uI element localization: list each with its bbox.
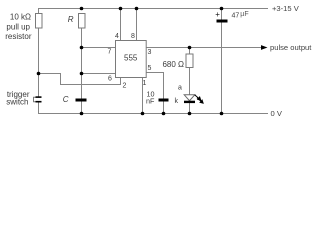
svg-text:nF: nF [146,97,155,106]
svg-text:1: 1 [143,80,147,87]
node LED bottom [188,112,192,116]
node 10nF bottom [162,112,166,116]
wire top rail +V [39,9,269,14]
svg-text:6: 6 [108,76,112,83]
svg-text:0 V: 0 V [271,109,283,118]
trigger switch symbol [34,96,42,102]
wire pin 5 to 10nF capacitor [146,73,163,114]
pulse output arrowhead [261,45,268,50]
wire pin 8 to +V [136,9,138,41]
svg-text:7: 7 [108,49,112,56]
svg-text:2: 2 [123,83,127,90]
svg-text:a: a [178,85,182,92]
node 680 ohm junction [188,46,192,50]
svg-text:680 Ω: 680 Ω [162,60,184,69]
node pin4 top [119,7,123,11]
node pin1 bottom [141,112,145,116]
svg-text:resistor: resistor [5,32,32,41]
node junction dots [37,7,224,116]
svg-text:+3-15 V: +3-15 V [272,4,300,13]
wire trigger to pin 2 [39,74,121,85]
resistor R [79,14,86,29]
node trigger junction [37,72,41,76]
capacitor C plate [76,99,87,102]
wire R to C vertical [81,28,83,99]
svg-text:pull up: pull up [6,23,30,32]
svg-text:5: 5 [148,65,152,72]
wire LED cathode to 0V [189,103,191,114]
svg-text:C: C [63,95,69,104]
LED D1 [184,95,203,104]
svg-text:8: 8 [131,33,135,40]
wire pin 4 to +V [120,9,122,41]
wire node to pin 6 [82,73,116,75]
svg-text:+: + [215,10,220,19]
wire 680 ohm branch [189,48,191,55]
LED emission arrows [195,95,204,104]
resistor 10k pull up [36,14,43,29]
node 47uF bottom [220,112,224,116]
capacitor 10 nF plate [159,99,169,102]
node pin8 top [135,7,139,11]
wire pin 3 output [146,47,261,49]
svg-text:3: 3 [148,49,152,56]
svg-text:µF: µF [240,11,248,18]
node pin6 junction [80,72,84,76]
node C bottom [80,112,84,116]
wire node to pin 7 [82,47,116,49]
svg-text:switch: switch [6,98,28,107]
node R top [80,7,84,11]
op-amp U1 555 IC body [116,41,147,78]
svg-text:4: 4 [115,33,119,40]
wire pull-up resistor to switch (left vertical) [38,28,40,97]
svg-text:47: 47 [232,12,240,19]
node 47uF top [220,7,224,11]
svg-text:R: R [68,15,74,24]
svg-text:pulse output: pulse output [270,43,312,52]
wire 47uF capacitor vertical [221,9,223,20]
capacitor 47 uF plate [217,20,228,23]
wire pin 1 to 0V [142,78,144,114]
svg-text:k: k [175,98,179,105]
resistor 680 ohm [186,54,193,68]
svg-text:555: 555 [124,53,138,62]
wire 680 ohm to LED [189,68,191,96]
node pin7 junction [80,46,84,50]
svg-text:10 kΩ: 10 kΩ [10,13,31,22]
wire bottom rail 0V [39,103,269,114]
